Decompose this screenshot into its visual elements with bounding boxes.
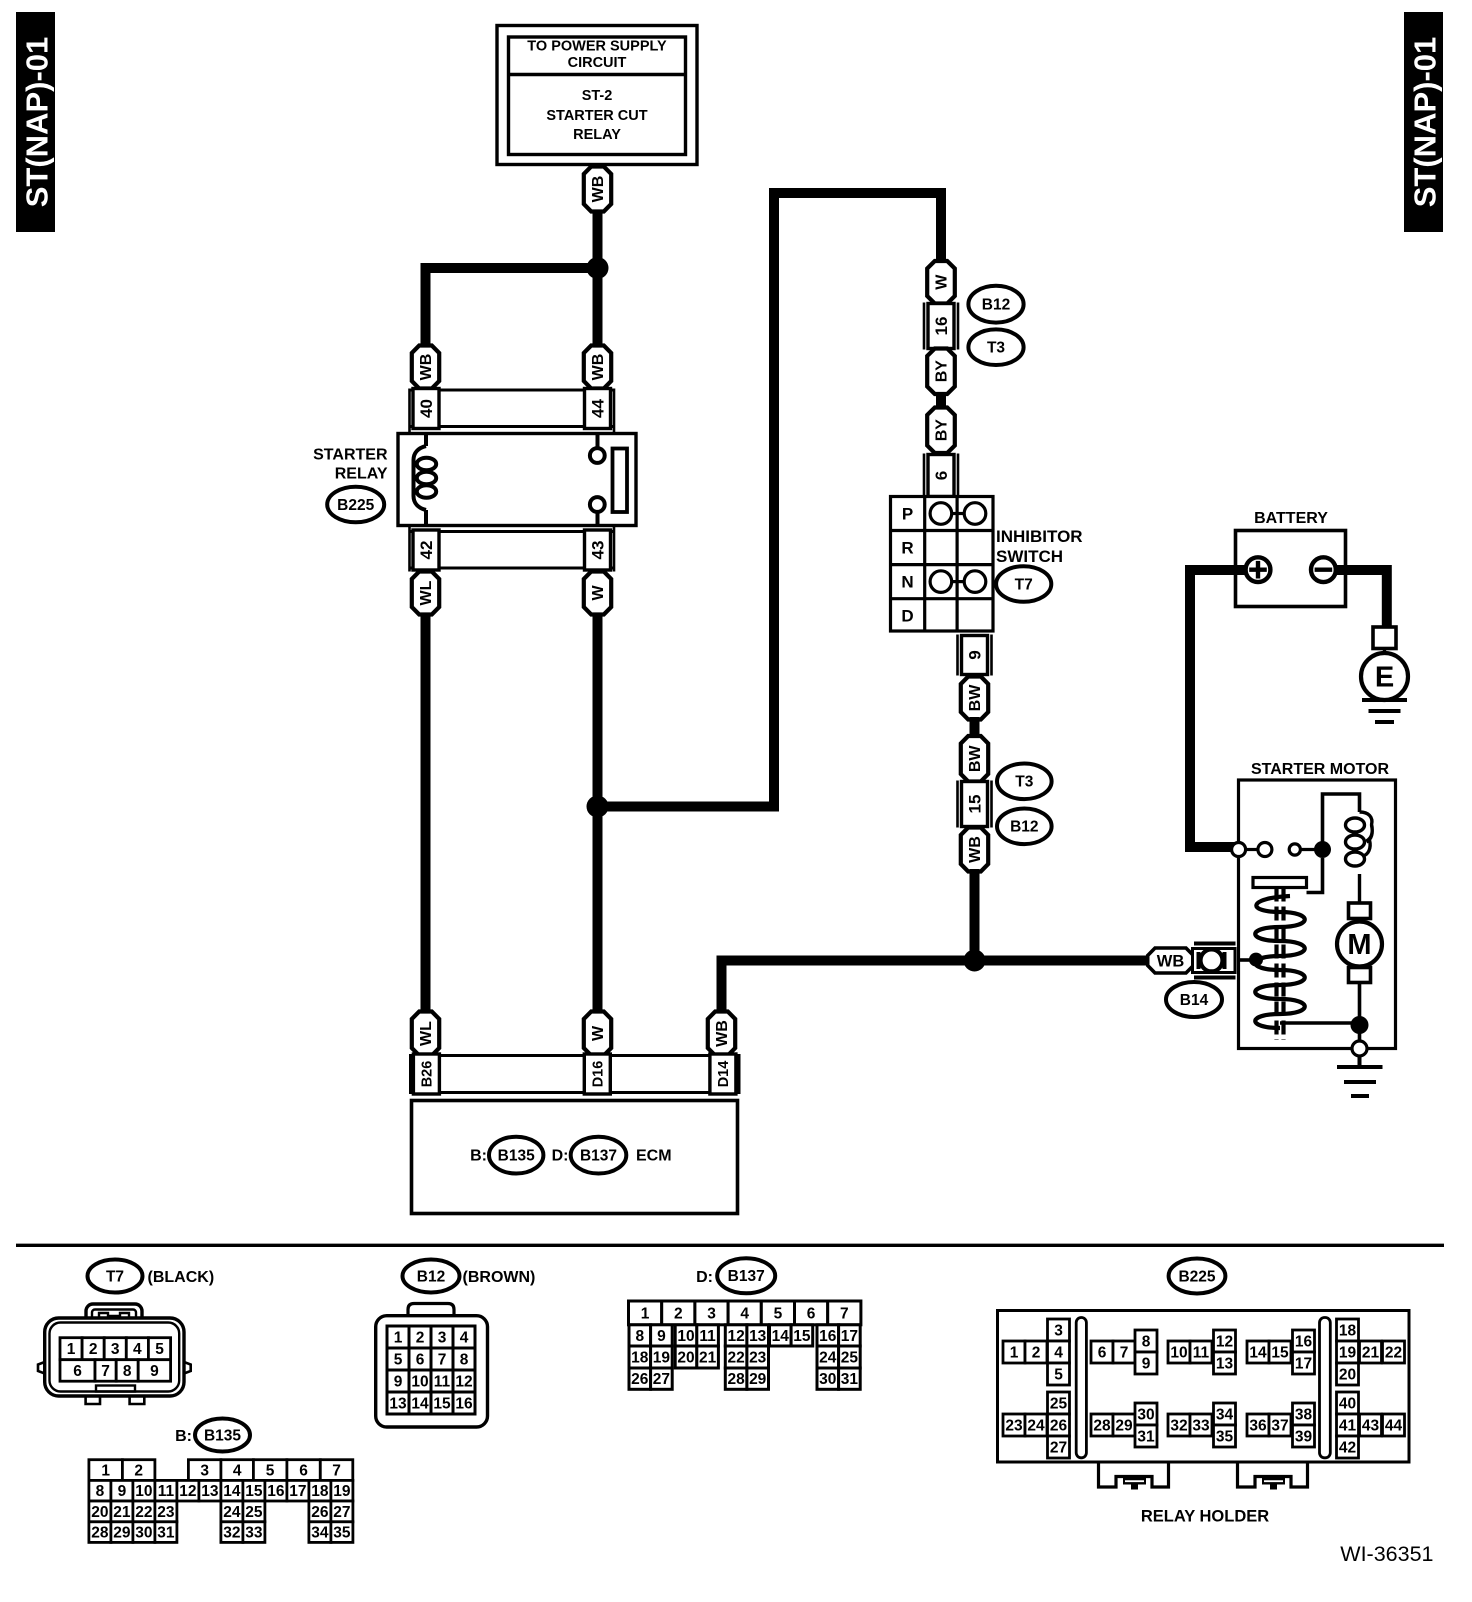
svg-text:D: D — [901, 607, 913, 626]
svg-text:9: 9 — [118, 1483, 127, 1500]
svg-text:25: 25 — [841, 1349, 859, 1366]
svg-text:ST(NAP)-01: ST(NAP)-01 — [1408, 37, 1443, 208]
svg-text:18: 18 — [1339, 1322, 1357, 1339]
svg-text:13: 13 — [1216, 1355, 1234, 1372]
svg-text:SWITCH: SWITCH — [996, 547, 1063, 566]
wire motor to ground — [1358, 983, 1362, 1047]
svg-text:16: 16 — [1295, 1333, 1313, 1350]
svg-text:33: 33 — [1192, 1417, 1210, 1434]
B225 pins 28-31 — [1091, 1403, 1157, 1447]
svg-text:D:: D: — [696, 1269, 713, 1286]
B225 pins 32-35 — [1168, 1403, 1236, 1447]
svg-text:14: 14 — [772, 1328, 790, 1345]
svg-text:38: 38 — [1295, 1406, 1313, 1423]
svg-text:WI-36351: WI-36351 — [1340, 1542, 1433, 1566]
svg-text:31: 31 — [157, 1525, 175, 1542]
page label ST(NAP)-01 right — [1404, 12, 1443, 232]
pin 42 — [413, 530, 439, 570]
wire label BY (upper) — [927, 349, 955, 395]
svg-text:10: 10 — [677, 1328, 694, 1345]
connector ref T7 (face) — [88, 1260, 215, 1293]
svg-text:26: 26 — [1050, 1417, 1068, 1434]
connector B225 bus pins 40 / 44 — [410, 389, 615, 433]
separator line — [16, 1244, 1444, 1247]
svg-text:8: 8 — [460, 1351, 469, 1368]
svg-text:3: 3 — [1054, 1322, 1063, 1339]
relay holder guide bar right — [1320, 1318, 1331, 1458]
svg-text:W: W — [590, 585, 607, 601]
svg-text:10: 10 — [1170, 1344, 1187, 1361]
svg-text:10: 10 — [135, 1483, 152, 1500]
svg-text:29: 29 — [113, 1525, 131, 1542]
svg-text:13: 13 — [749, 1328, 767, 1345]
B225 pins 1-5 — [1003, 1319, 1070, 1385]
power supply circuit box: TO POWER SUPPLY CIRCUIT / ST-2 STARTER CUT RELAY — [497, 26, 697, 165]
wire label WB (ECM) — [708, 1012, 735, 1056]
wire WB from starter cut relay — [593, 208, 603, 273]
svg-text:22: 22 — [727, 1349, 744, 1366]
inhibitor switch pin 9 — [958, 635, 992, 676]
pin D14 — [710, 1054, 736, 1094]
svg-text:26: 26 — [631, 1371, 649, 1388]
ECM box — [412, 1101, 738, 1214]
svg-text:30: 30 — [135, 1525, 152, 1542]
plunger link to contact — [1307, 858, 1323, 893]
ground E circle — [1361, 649, 1408, 701]
T7 pins 1-5 — [60, 1338, 171, 1360]
svg-text:23: 23 — [157, 1504, 175, 1521]
T7 pins 6-9 — [60, 1360, 171, 1382]
connector B137 pin grid — [629, 1301, 861, 1389]
svg-text:18: 18 — [311, 1483, 329, 1500]
svg-text:9: 9 — [657, 1328, 666, 1345]
wire label WB (pin 44 lead) — [584, 346, 611, 389]
svg-text:T3: T3 — [987, 340, 1005, 357]
wire label WB (pin 40 lead) — [412, 346, 439, 389]
svg-text:(BROWN): (BROWN) — [463, 1269, 536, 1286]
svg-text:7: 7 — [101, 1363, 110, 1380]
svg-text:27: 27 — [653, 1371, 670, 1388]
svg-text:20: 20 — [677, 1349, 694, 1366]
inhibitor switch P contacts — [930, 503, 986, 525]
svg-text:5: 5 — [155, 1341, 164, 1358]
pin 43 — [585, 530, 611, 570]
B225 pins 10-13 — [1168, 1330, 1236, 1374]
svg-text:13: 13 — [389, 1395, 407, 1412]
svg-text:4: 4 — [740, 1305, 749, 1322]
svg-text:39: 39 — [1295, 1428, 1313, 1445]
connector T7 face — [38, 1304, 191, 1404]
svg-text:BATTERY: BATTERY — [1254, 510, 1328, 527]
svg-text:5: 5 — [1054, 1366, 1063, 1383]
relay holder mounting foot right — [1238, 1464, 1308, 1490]
svg-text:28: 28 — [91, 1525, 109, 1542]
wire label WL (ECM) — [412, 1012, 439, 1056]
svg-text:ECM: ECM — [636, 1148, 672, 1165]
svg-text:19: 19 — [653, 1349, 671, 1366]
svg-text:13: 13 — [201, 1483, 219, 1500]
svg-text:B12: B12 — [1010, 819, 1038, 836]
svg-text:7: 7 — [438, 1351, 447, 1368]
svg-text:9: 9 — [150, 1363, 159, 1380]
svg-text:W: W — [934, 274, 951, 290]
svg-text:12: 12 — [727, 1328, 744, 1345]
svg-text:B26: B26 — [420, 1061, 436, 1088]
svg-text:14: 14 — [411, 1395, 429, 1412]
wire BY — [936, 392, 946, 409]
wire label BW (lower) — [961, 736, 988, 782]
connector ref B225 (relay holder) — [1169, 1259, 1226, 1294]
svg-text:D16: D16 — [590, 1061, 606, 1088]
svg-text:15: 15 — [433, 1395, 451, 1412]
svg-text:23: 23 — [1005, 1417, 1023, 1434]
relay holder guide bar left — [1076, 1318, 1086, 1458]
connector ref T7 — [996, 566, 1051, 602]
svg-text:WL: WL — [418, 580, 435, 605]
svg-text:15: 15 — [793, 1328, 811, 1345]
wire label WB below power box — [584, 167, 611, 212]
svg-text:B135: B135 — [204, 1427, 241, 1444]
svg-text:D14: D14 — [716, 1061, 732, 1088]
solenoid contact chain — [1232, 843, 1318, 857]
svg-text:27: 27 — [1050, 1439, 1067, 1456]
connector B14 at motor — [1193, 942, 1236, 980]
svg-text:22: 22 — [1385, 1344, 1402, 1361]
svg-text:21: 21 — [113, 1504, 131, 1521]
svg-text:17: 17 — [289, 1483, 306, 1500]
motor M upper terminal — [1349, 903, 1371, 919]
svg-text:5: 5 — [266, 1463, 275, 1480]
pin 40 — [413, 389, 439, 429]
svg-text:D:: D: — [552, 1148, 569, 1165]
svg-text:24: 24 — [223, 1504, 241, 1521]
svg-text:23: 23 — [749, 1349, 767, 1366]
svg-text:43: 43 — [588, 541, 607, 560]
connector ref B12 (face) — [403, 1260, 536, 1293]
svg-text:B137: B137 — [728, 1268, 765, 1285]
svg-text:E: E — [1375, 662, 1394, 694]
connector ref T3 (bottom) — [997, 764, 1052, 800]
ECM connector bus B26 / D16 / D14 — [411, 1054, 740, 1094]
svg-text:16: 16 — [267, 1483, 285, 1500]
connector ref B135 (face) — [175, 1419, 250, 1452]
svg-text:1: 1 — [641, 1305, 650, 1322]
svg-text:24: 24 — [819, 1349, 837, 1366]
svg-text:28: 28 — [727, 1371, 745, 1388]
svg-text:8: 8 — [123, 1363, 132, 1380]
wire label WB (starter motor lead) — [961, 828, 988, 872]
svg-text:T3: T3 — [1015, 774, 1033, 791]
svg-text:29: 29 — [1115, 1417, 1133, 1434]
wire spring to motor ground junction — [1280, 1021, 1360, 1025]
svg-text:STARTER: STARTER — [313, 447, 388, 464]
svg-text:BY: BY — [934, 360, 951, 383]
B12 pins 1-16 — [387, 1326, 475, 1414]
battery - terminal — [1311, 557, 1336, 582]
svg-text:TO POWER SUPPLY: TO POWER SUPPLY — [527, 39, 667, 55]
connector B135 pin grid — [89, 1460, 353, 1543]
B225 pins 18-22 — [1337, 1319, 1405, 1385]
svg-text:40: 40 — [417, 399, 436, 418]
svg-text:12: 12 — [179, 1483, 196, 1500]
svg-text:8: 8 — [96, 1483, 105, 1500]
svg-text:17: 17 — [841, 1328, 858, 1345]
svg-text:25: 25 — [245, 1504, 263, 1521]
wire battery - to ground E — [1332, 570, 1387, 627]
wire WB to starter motor — [970, 869, 980, 961]
svg-text:T7: T7 — [1015, 576, 1033, 593]
svg-text:24: 24 — [1027, 1417, 1045, 1434]
B225 pins 6-9 — [1091, 1330, 1157, 1374]
svg-text:1: 1 — [101, 1463, 110, 1480]
B225 pins 36-39 — [1247, 1403, 1315, 1447]
svg-text:8: 8 — [1142, 1333, 1151, 1350]
svg-text:B:: B: — [175, 1428, 192, 1445]
svg-text:19: 19 — [333, 1483, 351, 1500]
svg-text:11: 11 — [434, 1373, 451, 1390]
svg-text:RELAY HOLDER: RELAY HOLDER — [1141, 1508, 1269, 1526]
starter motor case ground circle — [1352, 1041, 1367, 1056]
svg-text:B:: B: — [470, 1148, 487, 1165]
relay holder box — [998, 1311, 1410, 1463]
svg-text:7: 7 — [840, 1305, 849, 1322]
svg-text:2: 2 — [134, 1463, 143, 1480]
svg-text:44: 44 — [1385, 1417, 1403, 1434]
svg-text:9: 9 — [965, 650, 984, 659]
svg-text:2: 2 — [89, 1341, 98, 1358]
wire W to ECM D16 — [593, 613, 603, 1013]
svg-text:9: 9 — [394, 1373, 403, 1390]
connector B225 bus pins 42 / 43 — [410, 527, 615, 572]
wire WL to ECM B26 — [421, 613, 431, 1013]
wire label W (relay out) — [584, 572, 611, 615]
svg-text:B135: B135 — [498, 1148, 535, 1165]
svg-text:11: 11 — [1193, 1344, 1210, 1361]
svg-text:27: 27 — [333, 1504, 350, 1521]
svg-text:W: W — [590, 1025, 607, 1041]
connector ref B12 (top) — [968, 286, 1023, 323]
motor M — [1337, 922, 1382, 967]
wire label WL — [412, 572, 439, 615]
svg-text:BW: BW — [967, 684, 984, 712]
svg-text:6: 6 — [299, 1463, 308, 1480]
svg-text:37: 37 — [1271, 1417, 1288, 1434]
svg-text:WL: WL — [418, 1021, 435, 1046]
svg-text:B225: B225 — [337, 497, 374, 514]
connector ref B137 (face) — [696, 1258, 775, 1293]
relay armature — [613, 449, 628, 513]
svg-text:8: 8 — [635, 1328, 644, 1345]
solenoid wire terminal node — [1249, 953, 1263, 967]
svg-text:(BLACK): (BLACK) — [148, 1269, 215, 1286]
svg-text:3: 3 — [111, 1341, 120, 1358]
page label ST(NAP)-01 left — [16, 12, 55, 232]
wire contact to field coil — [1323, 794, 1360, 850]
motor M lower terminal — [1349, 968, 1371, 983]
svg-text:6: 6 — [416, 1351, 425, 1368]
svg-text:7: 7 — [1120, 1344, 1129, 1361]
svg-text:6: 6 — [932, 471, 951, 480]
svg-text:STARTER MOTOR: STARTER MOTOR — [1251, 761, 1390, 778]
svg-text:M: M — [1347, 929, 1371, 961]
svg-text:2: 2 — [416, 1329, 425, 1346]
svg-text:16: 16 — [932, 317, 951, 336]
svg-text:12: 12 — [455, 1373, 472, 1390]
svg-text:6: 6 — [807, 1305, 816, 1322]
svg-text:31: 31 — [1137, 1428, 1155, 1445]
svg-text:B12: B12 — [417, 1268, 445, 1285]
junction node motor/plunger return — [1351, 1016, 1369, 1034]
svg-text:32: 32 — [1170, 1417, 1187, 1434]
wire label BY (lower) — [927, 408, 955, 454]
ground symbol (battery) — [1362, 700, 1407, 722]
svg-text:BW: BW — [967, 745, 984, 773]
pull-in spring — [1255, 896, 1305, 1028]
svg-text:42: 42 — [1339, 1439, 1356, 1456]
svg-text:22: 22 — [135, 1504, 152, 1521]
svg-text:RELAY: RELAY — [335, 466, 388, 483]
battery + terminal — [1246, 557, 1271, 582]
svg-text:2: 2 — [674, 1305, 683, 1322]
field coil — [1346, 812, 1373, 903]
svg-text:31: 31 — [841, 1371, 859, 1388]
svg-text:14: 14 — [223, 1483, 241, 1500]
connector T3/B12 pin 15 — [958, 781, 992, 828]
wire BW — [970, 717, 980, 738]
pin D16 — [584, 1054, 610, 1094]
connector ref B12 (bottom) — [997, 809, 1052, 845]
svg-text:25: 25 — [1050, 1395, 1068, 1412]
svg-text:BY: BY — [934, 419, 951, 442]
svg-text:18: 18 — [631, 1349, 649, 1366]
junction node starter wire — [964, 950, 986, 972]
plunger stem (dashed) — [1277, 888, 1284, 1041]
svg-text:30: 30 — [1137, 1406, 1154, 1423]
svg-text:4: 4 — [133, 1341, 142, 1358]
svg-text:34: 34 — [1216, 1406, 1234, 1423]
svg-text:15: 15 — [245, 1483, 263, 1500]
ground symbol (starter motor) — [1337, 1056, 1383, 1096]
svg-text:41: 41 — [1339, 1417, 1357, 1434]
wire label BW (upper) — [961, 677, 988, 720]
svg-text:WB: WB — [1157, 953, 1185, 971]
svg-text:5: 5 — [774, 1305, 783, 1322]
svg-text:WB: WB — [590, 354, 607, 381]
svg-text:9: 9 — [1142, 1355, 1151, 1372]
svg-text:43: 43 — [1362, 1417, 1380, 1434]
svg-text:30: 30 — [819, 1371, 836, 1388]
svg-text:26: 26 — [311, 1504, 329, 1521]
svg-text:42: 42 — [417, 541, 436, 560]
svg-text:3: 3 — [200, 1463, 209, 1480]
battery box — [1236, 531, 1346, 607]
svg-text:10: 10 — [411, 1373, 428, 1390]
svg-text:20: 20 — [1339, 1366, 1356, 1383]
svg-text:28: 28 — [1093, 1417, 1111, 1434]
solenoid contact node — [1314, 841, 1331, 858]
svg-text:INHIBITOR: INHIBITOR — [996, 527, 1083, 546]
wire into solenoid — [1237, 958, 1252, 962]
svg-text:3: 3 — [707, 1305, 716, 1322]
junction node on W wire — [587, 796, 609, 818]
svg-text:15: 15 — [1271, 1344, 1289, 1361]
relay coil — [414, 435, 437, 524]
junction node at WB branch — [587, 257, 609, 279]
wire label W (ECM) — [584, 1012, 611, 1056]
svg-text:29: 29 — [749, 1371, 767, 1388]
wire label WB (B14) — [1148, 948, 1194, 973]
svg-text:4: 4 — [233, 1463, 242, 1480]
svg-text:21: 21 — [699, 1349, 717, 1366]
wire label W (ignition branch) — [927, 261, 955, 304]
svg-text:ST(NAP)-01: ST(NAP)-01 — [20, 37, 55, 208]
inhibitor switch N contacts — [930, 571, 986, 593]
svg-text:5: 5 — [394, 1351, 403, 1368]
svg-text:P: P — [902, 505, 913, 524]
connector ref B14 — [1166, 982, 1222, 1017]
svg-text:35: 35 — [1216, 1428, 1234, 1445]
svg-text:WB: WB — [590, 176, 607, 203]
svg-text:32: 32 — [223, 1525, 240, 1542]
svg-text:1: 1 — [394, 1329, 403, 1346]
svg-text:14: 14 — [1249, 1344, 1267, 1361]
wire from starter relay contact to inhibitor switch branch — [602, 193, 941, 807]
B225 pins 40-44 — [1337, 1392, 1405, 1458]
svg-text:4: 4 — [1054, 1344, 1063, 1361]
label STARTER RELAY — [313, 447, 388, 483]
svg-text:N: N — [901, 573, 913, 592]
svg-text:17: 17 — [1295, 1355, 1312, 1372]
ground connector square — [1373, 627, 1396, 649]
connector B12 face — [376, 1304, 488, 1428]
svg-text:16: 16 — [455, 1395, 473, 1412]
svg-text:B225: B225 — [1178, 1268, 1215, 1285]
svg-text:2: 2 — [1032, 1344, 1041, 1361]
svg-text:34: 34 — [311, 1525, 329, 1542]
inhibitor switch position letters — [901, 505, 913, 626]
svg-text:33: 33 — [245, 1525, 263, 1542]
B225 pins 23-27 — [1003, 1392, 1070, 1458]
svg-text:T7: T7 — [106, 1268, 124, 1285]
svg-text:44: 44 — [588, 399, 607, 418]
svg-text:7: 7 — [332, 1463, 341, 1480]
svg-text:RELAY: RELAY — [573, 127, 621, 143]
svg-text:6: 6 — [73, 1363, 82, 1380]
pin 44 — [585, 389, 611, 429]
svg-text:16: 16 — [819, 1328, 837, 1345]
svg-text:B14: B14 — [1180, 992, 1209, 1009]
svg-text:WB: WB — [418, 354, 435, 381]
B225 pins 14-17 — [1247, 1330, 1315, 1374]
connector T3/B12 pin 16 — [924, 303, 958, 350]
starter motor box — [1239, 780, 1396, 1049]
inhibitor switch pin 6 — [924, 454, 958, 498]
svg-text:11: 11 — [699, 1328, 716, 1345]
svg-text:35: 35 — [333, 1525, 351, 1542]
svg-text:40: 40 — [1339, 1395, 1356, 1412]
connector ref B225 — [327, 487, 384, 523]
svg-text:1: 1 — [1010, 1344, 1019, 1361]
svg-text:STARTER CUT: STARTER CUT — [546, 108, 647, 124]
svg-text:R: R — [901, 539, 913, 558]
svg-text:B137: B137 — [580, 1148, 617, 1165]
svg-text:WB: WB — [714, 1020, 731, 1047]
relay contact — [590, 435, 605, 524]
plunger T bar — [1253, 878, 1307, 888]
svg-text:1: 1 — [67, 1341, 76, 1358]
svg-text:21: 21 — [1362, 1344, 1380, 1361]
pin B26 — [413, 1054, 439, 1094]
